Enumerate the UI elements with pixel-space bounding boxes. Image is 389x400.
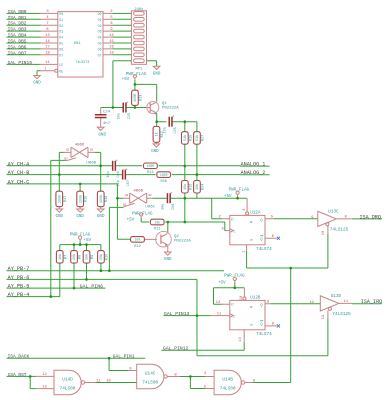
svg-text:O4: O4 <box>98 36 102 40</box>
svg-text:D2: D2 <box>59 24 63 28</box>
svg-text:D: D <box>231 218 233 222</box>
svg-text:O2: O2 <box>148 194 152 197</box>
svg-text:U14D: U14D <box>62 378 73 383</box>
svg-text:O5: O5 <box>98 42 102 46</box>
svg-text:4n7: 4n7 <box>103 122 111 126</box>
svg-text:7: 7 <box>46 22 48 26</box>
svg-text:10u: 10u <box>118 113 122 119</box>
svg-text:R8: R8 <box>79 255 83 259</box>
svg-text:ISA_DACK: ISA_DACK <box>8 354 30 360</box>
svg-text:10k: 10k <box>99 254 104 260</box>
svg-text:10k: 10k <box>72 254 77 260</box>
svg-text:S: S <box>250 239 254 241</box>
svg-text:74LS373: 74LS373 <box>75 60 89 64</box>
svg-text:RP1: RP1 <box>135 67 143 71</box>
svg-text:GAL_PIN13: GAL_PIN13 <box>164 311 190 317</box>
svg-text:74LS74: 74LS74 <box>256 247 272 252</box>
svg-text:Q: Q <box>260 323 262 327</box>
svg-text:R26: R26 <box>160 180 166 184</box>
svg-text:10: 10 <box>240 296 244 300</box>
svg-text:11: 11 <box>96 379 101 383</box>
svg-text:ISA_DB4: ISA_DB4 <box>8 33 27 39</box>
svg-text:+5V: +5V <box>224 194 232 199</box>
svg-text:ANALOG_2: ANALOG_2 <box>241 170 266 176</box>
svg-text:R: R <box>250 306 254 308</box>
svg-text:6: 6 <box>253 379 255 383</box>
svg-text:17: 17 <box>45 46 49 50</box>
svg-text:R19: R19 <box>105 196 109 202</box>
svg-text:74LS74: 74LS74 <box>256 332 272 337</box>
svg-text:2: 2 <box>110 10 112 14</box>
svg-text:GND: GND <box>153 72 161 76</box>
svg-text:R: R <box>250 221 254 223</box>
svg-text:U14C: U14C <box>145 372 156 377</box>
svg-text:PN2222A: PN2222A <box>162 106 179 110</box>
svg-text:74LS00: 74LS00 <box>142 381 158 386</box>
svg-text:AY_CH-B: AY_CH-B <box>8 170 30 176</box>
svg-text:4066: 4066 <box>75 143 85 147</box>
svg-text:O3: O3 <box>98 30 102 34</box>
svg-text:R24: R24 <box>201 184 205 190</box>
svg-text:AY_CH-A: AY_CH-A <box>8 161 31 167</box>
svg-text:240x: 240x <box>134 8 144 12</box>
svg-text:100k: 100k <box>99 195 104 203</box>
svg-text:10: 10 <box>322 231 326 235</box>
svg-text:OE: OE <box>59 69 63 73</box>
svg-text:GND: GND <box>56 215 64 219</box>
svg-text:6: 6 <box>110 22 112 26</box>
svg-text:PWR_FLAG: PWR_FLAG <box>132 212 153 217</box>
svg-text:R13: R13 <box>139 95 143 101</box>
svg-text:C08: C08 <box>172 204 176 210</box>
svg-text:U13C: U13C <box>328 210 339 215</box>
svg-text:15: 15 <box>109 40 113 44</box>
svg-text:Q: Q <box>260 219 262 223</box>
svg-text:ISA_DB3: ISA_DB3 <box>8 27 27 33</box>
svg-text:19: 19 <box>109 52 113 56</box>
svg-text:C06: C06 <box>117 171 121 177</box>
svg-text:+5V: +5V <box>218 280 226 285</box>
svg-text:10k: 10k <box>183 184 188 190</box>
svg-text:R27: R27 <box>201 135 205 141</box>
svg-text:U06B: U06B <box>86 161 96 165</box>
svg-text:5: 5 <box>271 215 273 219</box>
svg-text:9: 9 <box>129 367 131 371</box>
svg-text:12: 12 <box>109 34 113 38</box>
svg-text:10u: 10u <box>117 180 121 186</box>
svg-text:S: S <box>250 324 254 326</box>
svg-text:14: 14 <box>45 40 50 44</box>
svg-text:O6: O6 <box>98 48 102 52</box>
svg-text:74LS125: 74LS125 <box>330 228 349 233</box>
svg-text:AY_PB-6: AY_PB-6 <box>8 275 30 281</box>
svg-text:5: 5 <box>110 16 112 20</box>
svg-text:O0: O0 <box>98 12 102 16</box>
svg-text:GAL_PIN1: GAL_PIN1 <box>113 354 135 360</box>
svg-text:ISA_DB6: ISA_DB6 <box>8 44 27 50</box>
svg-text:D: D <box>231 303 233 307</box>
svg-text:9: 9 <box>267 300 269 304</box>
svg-text:16: 16 <box>109 46 113 50</box>
svg-text:100k: 100k <box>58 195 63 203</box>
svg-text:U2: U2 <box>66 148 70 151</box>
svg-text:D7: D7 <box>59 53 63 57</box>
svg-text:GND: GND <box>98 134 106 138</box>
svg-text:10u: 10u <box>162 204 166 210</box>
svg-text:74LS00: 74LS00 <box>60 387 76 392</box>
svg-text:GAL_PIN19: GAL_PIN19 <box>8 60 33 66</box>
svg-text:C07: C07 <box>127 180 131 186</box>
svg-text:B2: B2 <box>123 203 127 206</box>
svg-text:R17: R17 <box>64 196 68 202</box>
svg-text:2: 2 <box>218 216 220 220</box>
svg-text:C05: C05 <box>174 127 178 133</box>
svg-text:9: 9 <box>311 216 313 220</box>
svg-text:8: 8 <box>344 215 346 219</box>
svg-text:R9: R9 <box>91 255 95 259</box>
svg-text:ANALOG_1: ANALOG_1 <box>241 162 266 168</box>
svg-text:10u: 10u <box>107 171 111 177</box>
svg-text:10k: 10k <box>135 238 141 242</box>
svg-text:R12: R12 <box>161 131 165 137</box>
svg-text:12: 12 <box>216 301 220 305</box>
svg-text:ISA_DB7: ISA_DB7 <box>8 50 27 56</box>
svg-text:11: 11 <box>217 312 222 316</box>
svg-text:1k: 1k <box>155 132 160 136</box>
svg-text:O7: O7 <box>98 53 102 57</box>
svg-text:8: 8 <box>46 28 48 32</box>
svg-text:100R: 100R <box>147 164 155 168</box>
svg-text:12: 12 <box>310 301 314 305</box>
svg-text:R15: R15 <box>189 135 193 141</box>
svg-text:3: 3 <box>221 227 223 231</box>
svg-text:C25: C25 <box>128 113 132 119</box>
svg-text:4066: 4066 <box>133 190 143 194</box>
svg-text:GND: GND <box>97 215 105 219</box>
svg-text:ISA_DB1: ISA_DB1 <box>8 15 27 21</box>
svg-text:3: 3 <box>46 10 48 14</box>
svg-text:C: C <box>233 315 235 319</box>
svg-text:PWR_FLAG: PWR_FLAG <box>70 232 91 237</box>
svg-text:D1: D1 <box>59 18 63 22</box>
svg-text:6: 6 <box>272 235 274 239</box>
svg-text:8: 8 <box>174 373 176 377</box>
svg-text:13: 13 <box>322 315 326 319</box>
svg-text:AY_PB-7: AY_PB-7 <box>8 266 30 272</box>
svg-text:O2: O2 <box>90 148 94 151</box>
svg-text:100R: 100R <box>160 173 168 177</box>
svg-text:ISA_DB0: ISA_DB0 <box>8 9 27 15</box>
svg-text:U12A: U12A <box>250 210 261 215</box>
svg-text:AY_CH-C: AY_CH-C <box>8 179 30 185</box>
svg-text:+5V: +5V <box>127 217 135 222</box>
svg-text:51k: 51k <box>183 135 188 141</box>
svg-text:74LS125: 74LS125 <box>332 312 351 317</box>
svg-text:Q: Q <box>260 304 262 308</box>
svg-text:U01: U01 <box>74 42 82 46</box>
svg-text:PN2222A: PN2222A <box>174 239 191 243</box>
svg-text:8: 8 <box>272 323 274 327</box>
svg-text:13: 13 <box>239 337 243 341</box>
svg-text:C: C <box>233 230 235 234</box>
svg-text:Q: Q <box>260 238 262 242</box>
svg-text:9: 9 <box>110 28 112 32</box>
svg-text:100k: 100k <box>78 195 83 203</box>
svg-text:GND: GND <box>164 258 172 262</box>
svg-text:D6: D6 <box>59 48 63 52</box>
svg-text:R22: R22 <box>134 245 140 249</box>
svg-text:10k: 10k <box>58 254 63 260</box>
svg-text:R11: R11 <box>154 227 160 231</box>
svg-text:ISA_RST: ISA_RST <box>8 372 27 378</box>
svg-text:10: 10 <box>106 379 110 383</box>
svg-text:D4: D4 <box>59 36 63 40</box>
svg-text:ISA_DRQ: ISA_DRQ <box>360 214 381 220</box>
svg-text:AY_PB-5: AY_PB-5 <box>8 284 30 290</box>
svg-text:R7: R7 <box>64 255 68 259</box>
svg-text:B2: B2 <box>64 158 68 161</box>
svg-text:12: 12 <box>42 373 46 377</box>
svg-text:PWR_FLAG: PWR_FLAG <box>229 188 250 193</box>
svg-text:+5V: +5V <box>83 238 91 243</box>
svg-text:13: 13 <box>42 385 46 389</box>
svg-text:U13D: U13D <box>331 294 342 299</box>
svg-text:GAL_PIN12: GAL_PIN12 <box>163 346 189 352</box>
svg-text:D5: D5 <box>59 42 63 46</box>
svg-text:ISA_DB5: ISA_DB5 <box>8 39 27 45</box>
svg-text:D0: D0 <box>59 12 63 16</box>
svg-text:R14: R14 <box>147 171 153 175</box>
svg-text:O1: O1 <box>98 18 102 22</box>
svg-text:U2: U2 <box>125 194 129 197</box>
svg-text:C24: C24 <box>103 111 111 115</box>
svg-text:PWR_FLAG: PWR_FLAG <box>224 273 245 278</box>
svg-text:R10: R10 <box>105 254 109 260</box>
svg-text:U14B: U14B <box>222 378 233 383</box>
svg-text:GAL_PIN6: GAL_PIN6 <box>80 284 104 290</box>
svg-text:O2: O2 <box>98 24 102 28</box>
svg-text:ISA_DB2: ISA_DB2 <box>8 21 27 27</box>
svg-text:18: 18 <box>45 52 49 56</box>
svg-text:GND: GND <box>151 150 159 154</box>
svg-text:ISA_IRQ: ISA_IRQ <box>361 299 382 305</box>
svg-text:10k: 10k <box>85 254 90 260</box>
svg-text:11: 11 <box>344 300 349 304</box>
svg-text:R16: R16 <box>189 184 193 190</box>
svg-text:U12B: U12B <box>250 295 261 300</box>
svg-text:D3: D3 <box>59 30 63 34</box>
svg-text:U06C: U06C <box>145 206 155 210</box>
svg-text:5: 5 <box>204 385 206 389</box>
svg-text:AY_PB-4: AY_PB-4 <box>8 292 30 298</box>
svg-text:100R: 100R <box>134 93 138 102</box>
svg-text:10k: 10k <box>195 184 200 190</box>
svg-text:+5V: +5V <box>122 77 130 82</box>
svg-text:LE: LE <box>59 63 63 67</box>
svg-text:GND: GND <box>76 215 84 219</box>
svg-text:74LS00: 74LS00 <box>220 387 236 392</box>
svg-text:10k: 10k <box>154 220 160 224</box>
svg-text:13: 13 <box>45 34 49 38</box>
svg-text:GND: GND <box>33 82 41 86</box>
svg-text:51k: 51k <box>195 135 200 141</box>
svg-text:11: 11 <box>45 61 50 65</box>
svg-text:R18: R18 <box>85 196 89 202</box>
